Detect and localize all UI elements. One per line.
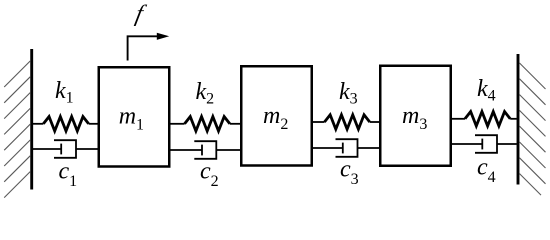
- damper c1: [33, 140, 98, 158]
- label m2: [263, 103, 288, 133]
- label c2: [200, 159, 219, 191]
- spring k1: [33, 117, 98, 131]
- mass m2: [241, 66, 312, 165]
- label f: [133, 1, 148, 27]
- label m3: [402, 103, 427, 133]
- label k4: [477, 76, 496, 105]
- label k2: [196, 79, 215, 108]
- label c3: [340, 157, 359, 189]
- right wall: [517, 54, 520, 185]
- right wall hatching: [520, 63, 546, 195]
- label c4: [477, 155, 496, 187]
- damper c2: [170, 141, 241, 159]
- left wall hatching: [4, 61, 30, 198]
- spring k4: [451, 112, 517, 126]
- spring k2: [170, 117, 241, 131]
- damper c4: [451, 135, 517, 153]
- label k1: [55, 78, 74, 107]
- damper c3: [312, 139, 380, 157]
- left wall: [30, 49, 33, 190]
- label m1: [119, 104, 144, 134]
- spring k3: [312, 115, 380, 129]
- mass m1: [99, 67, 170, 166]
- label k3: [339, 79, 358, 108]
- label c1: [59, 159, 78, 191]
- force arrow f: [128, 33, 170, 61]
- mass m3: [380, 66, 451, 166]
